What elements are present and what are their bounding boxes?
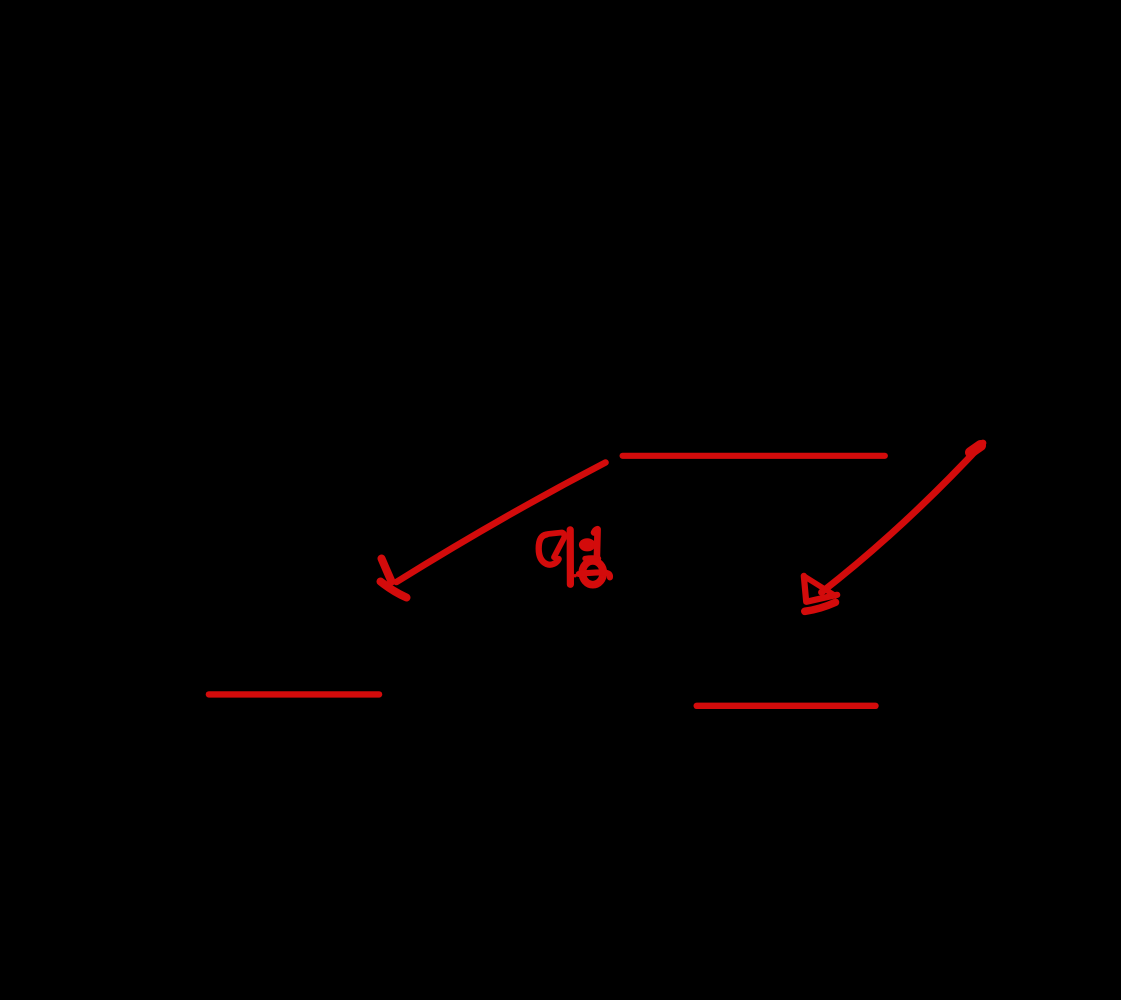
underline bottom-left (net B) — [209, 691, 379, 697]
left arrowhead barb upper — [382, 559, 392, 582]
char2 stray ink speck — [573, 574, 576, 577]
underline bottom-right (net C) — [697, 703, 876, 709]
char2 bottom loop — [582, 561, 603, 585]
char2 crossing horizontal with hook — [579, 572, 610, 577]
wire: left arrow shaft — [397, 463, 606, 583]
char1 cursive mieum: top bar + corner + inner diagonal — [548, 533, 565, 558]
arrow left (from net A down to bottom-left) — [381, 463, 606, 598]
arrow right (from net A down to bottom-right) — [804, 443, 983, 611]
right arrowhead underline swoosh — [805, 602, 836, 611]
char1 tall vertical bar — [567, 530, 574, 585]
right arrowhead open triangle — [804, 576, 837, 602]
right arrow start blob — [971, 446, 981, 453]
wire: right arrow shaft — [822, 443, 984, 592]
char1 cursive mieum: left and bottom curve — [539, 535, 559, 565]
char2 mid connector band — [585, 555, 599, 561]
char2 vertical bar with top hook — [594, 529, 598, 558]
handwritten korean word label — [539, 529, 610, 584]
left arrowhead barb lower — [381, 582, 407, 598]
char2 top-left filled blob — [579, 538, 596, 551]
underline top (net A) — [623, 453, 885, 459]
